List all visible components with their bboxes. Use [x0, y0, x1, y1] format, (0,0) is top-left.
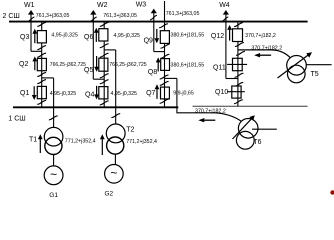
svg-text:Q5: Q5 [84, 67, 93, 74]
disconnector slash Q12 upper [234, 23, 243, 27]
breaker Q6 [99, 29, 108, 41]
disconnector slash Q1 upper [37, 80, 46, 84]
svg-text:761,3+j363,05: 761,3+j363,05 [166, 11, 200, 17]
disconnector slash Q8 upper [161, 54, 170, 58]
disconnector tick on W4 feeder [221, 17, 228, 21]
generator G1 circle [44, 166, 63, 185]
disconnector slash Q6 lower [100, 44, 109, 48]
disconnector slash on T1 branch [49, 116, 58, 120]
wire T1 to G1 [53, 154, 55, 166]
disconnector slash Q7 lower [160, 99, 169, 103]
feeder W4 arrowhead [223, 10, 229, 15]
flow arrow Q7 up [156, 88, 158, 99]
svg-text:T1: T1 [29, 137, 37, 144]
svg-text:Q8: Q8 [148, 69, 157, 76]
disconnector slash Q2 upper [37, 53, 46, 57]
regulation arrow T5 [278, 54, 310, 78]
svg-text:G2: G2 [105, 191, 114, 198]
flow arrow Q1 down [33, 86, 35, 96]
svg-text:Q3: Q3 [20, 34, 29, 41]
wire string column 1 middle [41, 58, 43, 86]
svg-text:2 СШ: 2 СШ [3, 13, 20, 20]
breaker Q12 [233, 29, 243, 42]
svg-text:Q11: Q11 [213, 64, 226, 71]
svg-text:761,3+j363,05: 761,3+j363,05 [36, 13, 70, 19]
feeder W1 arrowhead [28, 10, 34, 15]
flow arrow left (T6 line) [203, 119, 215, 121]
regulation arrow T6 [233, 118, 253, 139]
breaker Q8 [161, 59, 170, 71]
svg-text:Q9: Q9 [144, 37, 153, 44]
disconnector slash Q11 lower [235, 73, 244, 77]
disconnector slash Q5 upper [100, 53, 109, 57]
wire T6 branch vertical [176, 78, 178, 113]
svg-text:766,25-j362,725: 766,25-j362,725 [109, 62, 147, 68]
feeder W3 arrowhead [151, 9, 157, 14]
wire string column 4 lower [237, 86, 239, 106]
bus 1СШ (lower busbar) [13, 106, 178, 108]
transformer T1 lower winding [45, 137, 62, 154]
wire tap W1 to string [31, 50, 42, 52]
wire tap to T6 horizontal [165, 77, 177, 79]
wire string column 3 upper [164, 22, 166, 59]
wire feeder W1 line [30, 11, 32, 51]
svg-text:761,3+j363,05: 761,3+j363,05 [103, 13, 137, 19]
wire string column 1 upper [41, 22, 43, 59]
svg-text:Q7: Q7 [146, 90, 155, 97]
wire string column 2 upper [103, 22, 105, 59]
flow arrow T2 up [101, 138, 103, 155]
transformer T2 upper winding [106, 124, 125, 143]
transformer T5 upper winding [287, 56, 307, 76]
breaker Q7 [161, 87, 170, 99]
svg-text:4,95-j0,325: 4,95-j0,325 [111, 91, 138, 97]
svg-text:Q1: Q1 [20, 90, 29, 97]
transformer T1 upper winding [44, 127, 63, 146]
svg-text:T2: T2 [126, 127, 134, 134]
wire tap W2 to string [93, 78, 104, 80]
flow arrow Q5 down [96, 56, 98, 68]
svg-text:4,95-j0,325: 4,95-j0,325 [51, 33, 78, 39]
flow arrow Q3 up [34, 33, 36, 44]
svg-text:~: ~ [110, 166, 117, 180]
wire T6 branch horizontal with curve [177, 113, 242, 122]
wire T2 to G2 [114, 154, 116, 164]
wire string column 1 lower [41, 86, 43, 107]
bus 2СШ (upper busbar) [9, 21, 308, 23]
svg-text:Q4: Q4 [85, 91, 94, 98]
flow arrow Q12 up [229, 29, 231, 41]
svg-text:380,6+j181,55: 380,6+j181,55 [171, 32, 205, 38]
breaker Q3 [37, 31, 46, 43]
disconnector slash Q4 upper [100, 80, 109, 84]
disconnector slash Q3 upper [37, 22, 46, 26]
svg-text:Т5: Т5 [311, 71, 319, 78]
transformer T2 lower winding [107, 137, 124, 154]
disconnector slash Q4 lower [100, 101, 109, 105]
disconnector slash Q10 lower [234, 100, 243, 104]
disconnector slash Q5 lower [100, 74, 109, 78]
disconnector tick on W1 feeder [28, 17, 35, 21]
wire T6 to right [252, 128, 277, 130]
transformer T6 lower winding [236, 131, 254, 149]
wire string column 4 middle [237, 58, 239, 86]
feeder W2 arrowhead [90, 10, 96, 15]
svg-text:Q6: Q6 [84, 34, 93, 41]
svg-text:370,7+j182,2: 370,7+j182,2 [251, 46, 282, 52]
disconnector slash Q1 lower [37, 100, 46, 104]
svg-text:4,95-j0,325: 4,95-j0,325 [50, 91, 77, 97]
flow arrow Q6 up [95, 32, 97, 42]
disconnector slash on T2 branch [111, 114, 120, 118]
svg-text:9,9-j0,65: 9,9-j0,65 [173, 91, 194, 97]
disconnector slash Q7 upper [160, 81, 169, 85]
wire string column 2 middle [103, 58, 105, 86]
svg-text:W3: W3 [136, 1, 147, 8]
breaker Q1 [37, 86, 46, 98]
breaker Q11 [233, 58, 243, 70]
flow arrow T1 up [39, 138, 41, 153]
wire bus1 extension to T5/T6 section [193, 105, 308, 107]
wire feeder W3 line [153, 10, 155, 52]
svg-text:771,2+j352,4: 771,2+j352,4 [126, 139, 157, 145]
svg-text:370,7+j182,2: 370,7+j182,2 [245, 33, 276, 39]
flow arrow Q2 up [34, 60, 36, 70]
wire string column 2 lower [103, 87, 105, 108]
disconnector slash Q8 lower [160, 75, 169, 79]
disconnector slash Q2 lower [37, 73, 46, 77]
wire feeder W2 line [92, 11, 94, 79]
wire string column 3 above bus [164, 1, 166, 22]
disconnector slash Q10 upper [234, 82, 243, 86]
disconnector slash Q9 upper [159, 24, 168, 28]
breaker Q9 [160, 31, 169, 44]
wire tap W3 to string [154, 51, 165, 53]
svg-text:766,25-j362,725: 766,25-j362,725 [50, 62, 86, 68]
disconnector slash Q9 lower [161, 44, 170, 48]
wire tap W4 to string [226, 78, 238, 80]
wire string column 3 lower [164, 87, 166, 107]
breaker Q2 [37, 58, 46, 70]
wire stub through Q10 [227, 91, 245, 93]
transformer T5 lower winding [288, 65, 306, 83]
svg-text:Q10: Q10 [215, 89, 228, 96]
svg-text:Q12: Q12 [211, 33, 224, 40]
disconnector slash Q12 lower [235, 43, 244, 47]
flow arrow left (T5 line) [259, 54, 271, 56]
wire string column 4 upper [237, 22, 239, 59]
svg-text:370,7+j182,2: 370,7+j182,2 [195, 109, 226, 115]
wire tap to T2 [104, 49, 116, 51]
flow arrow Q9 down [156, 29, 158, 39]
flow arrow Q8 up [157, 61, 159, 71]
disconnector tick on W3 feeder [150, 15, 157, 19]
breaker Q4 [99, 87, 108, 99]
svg-text:G1: G1 [49, 192, 58, 199]
transformer T6 upper winding [238, 119, 258, 139]
wire feeder W4 line [225, 11, 227, 78]
disconnector slash Q11 upper [236, 51, 245, 55]
svg-text:1 СШ: 1 СШ [8, 116, 25, 123]
wire tap to T1 [42, 77, 54, 79]
svg-text:771,2+j352,4: 771,2+j352,4 [65, 139, 96, 145]
svg-text:W2: W2 [97, 2, 108, 9]
disconnector slash Q6 upper [100, 22, 109, 26]
svg-text:W1: W1 [24, 2, 35, 9]
generator G2 circle [105, 165, 124, 184]
svg-text:380,6+j181,55: 380,6+j181,55 [171, 62, 205, 68]
flow arrow Q4 down [96, 86, 98, 96]
svg-text:4,95-j0,325: 4,95-j0,325 [114, 33, 141, 39]
red dot mark [330, 190, 334, 194]
svg-text:Q2: Q2 [19, 61, 28, 68]
breaker Q5 [99, 58, 108, 71]
wire stub through Q11 [227, 63, 247, 65]
wire string column 3 middle [164, 59, 166, 88]
disconnector tick on W2 feeder [90, 17, 97, 21]
svg-text:Т6: Т6 [253, 139, 261, 146]
wire T5 to right [306, 64, 331, 66]
wire tap to T5 with curve [238, 50, 290, 58]
breaker Q10 [232, 86, 241, 98]
svg-text:~: ~ [50, 168, 57, 182]
disconnector slash Q3 lower [37, 46, 46, 50]
svg-text:W4: W4 [219, 2, 230, 9]
